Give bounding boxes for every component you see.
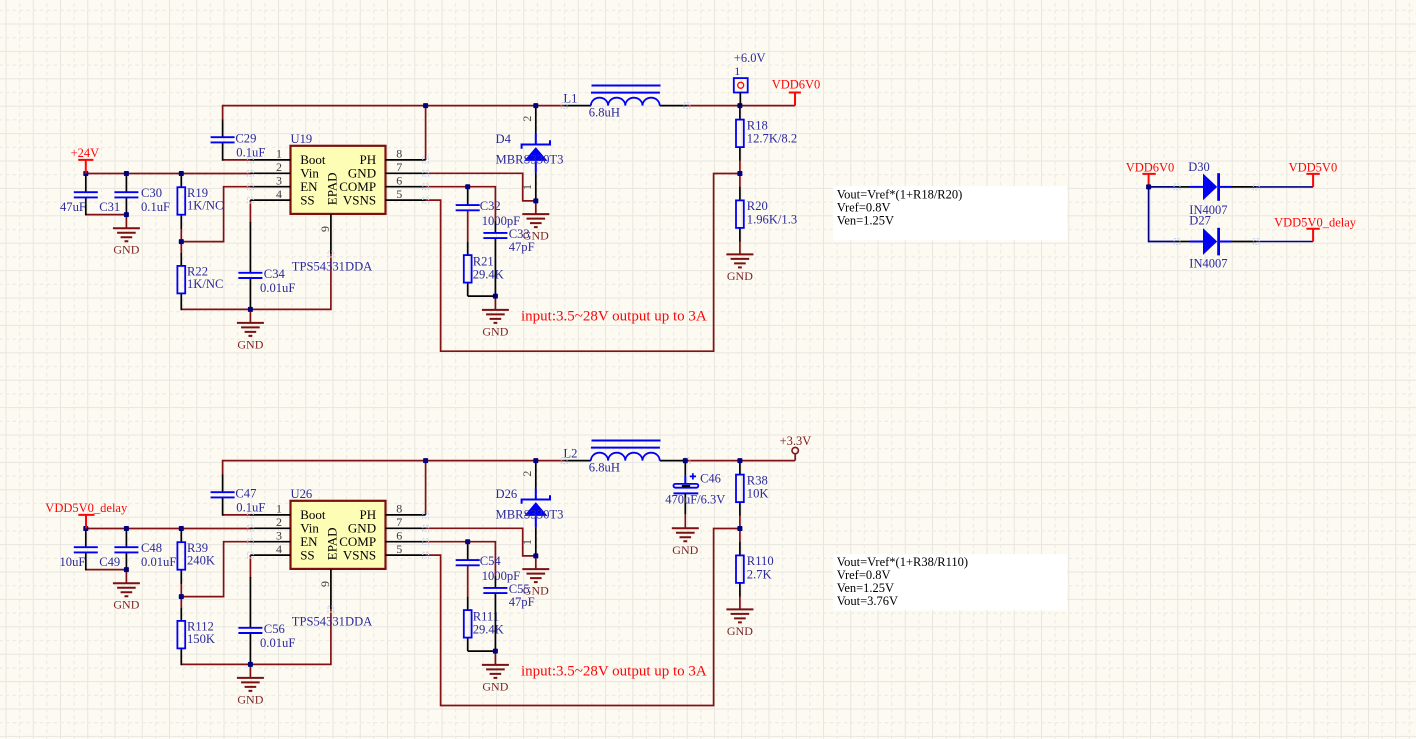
pin 1 Boot [250,159,290,161]
svg-text:GND: GND [482,679,508,693]
capacitor C31 plates [74,192,98,197]
pin 7 GND [386,172,426,174]
svg-text:GND: GND [237,692,263,706]
svg-text:Vref=0.8V: Vref=0.8V [837,200,891,214]
wire: EN divider riser [181,187,251,242]
svg-text:47pF: 47pF [509,595,535,609]
svg-text:Vref=0.8V: Vref=0.8V [837,568,891,582]
wire: D27 cathode to VDD5V0_delay [1256,241,1313,243]
svg-text:10uF: 10uF [60,555,86,569]
svg-text:0.1uF: 0.1uF [236,146,265,160]
resistor R21 body [464,255,472,283]
wire: C31 bottom link [86,214,127,216]
svg-text:L1: L1 [563,92,577,106]
svg-text:U19: U19 [291,132,313,146]
wire: comp cap lower lead [467,210,469,242]
svg-text:0.01uF: 0.01uF [260,636,295,650]
pin 5 VSNS [386,554,426,556]
svg-text:1: 1 [520,184,534,190]
pin 3 EN [250,541,290,543]
svg-text:470uF/6.3V: 470uF/6.3V [665,493,725,507]
wire: gnd stem [535,201,537,214]
svg-text:R110: R110 [747,554,774,568]
pin 8 PH [386,514,426,516]
junction dots [423,458,428,463]
svg-text:+24V: +24V [71,146,100,160]
capacitor C54 1000pF leads [467,542,469,560]
svg-text:+3.3V: +3.3V [780,434,812,448]
capacitor C31 47uF leads [85,174,87,193]
connection marks at diode pins [1174,184,1180,190]
svg-text:2: 2 [520,471,534,477]
capacitor C32 plates [456,205,480,210]
svg-text:Vout=Vref*(1+R38/R110): Vout=Vref*(1+R38/R110) [837,555,968,569]
svg-text:VDD5V0_delay: VDD5V0_delay [1274,216,1357,230]
wire: comp cap lower lead [467,565,469,597]
capacitor C55 plates [483,588,507,593]
wire: boot cap to pin 1 [223,514,252,516]
svg-text:0.01uF: 0.01uF [260,281,295,295]
svg-text:3: 3 [276,174,282,188]
svg-text:Vout=Vref*(1+R18/R20): Vout=Vref*(1+R18/R20) [837,188,963,202]
svg-text:R18: R18 [747,118,768,132]
resistor R110 2.7K leads [739,542,741,556]
capacitor C55 47pF leads [494,576,496,588]
capacitor C30 0.1uF leads [125,174,127,193]
svg-text:C48: C48 [141,541,162,555]
ground under R111 [482,665,509,678]
svg-text:EPAD: EPAD [324,527,339,560]
resistor R20 body [736,200,744,228]
svg-text:4: 4 [276,187,282,201]
svg-text:VDD5V0_delay: VDD5V0_delay [45,501,128,515]
pin 1 Boot [250,514,290,516]
svg-text:29.4K: 29.4K [473,622,504,636]
capacitor C47 0.1uF leads [222,475,224,493]
svg-text:D26: D26 [496,487,518,501]
svg-text:U26: U26 [291,487,313,501]
ground under R110 [726,609,753,622]
svg-text:GND: GND [672,543,698,557]
wire: SS pin to soft-start cap [249,555,251,578]
svg-text:1: 1 [276,502,282,516]
svg-text:D30: D30 [1188,160,1210,174]
wire: IC GND pin to diode anode [426,528,536,556]
diode D27 IN4007 [1177,228,1256,256]
svg-text:5: 5 [396,542,402,556]
wire: top rail from C29 to L pin [223,105,565,107]
capacitor C56 plates [238,628,262,633]
pin 4 SS [250,199,290,201]
svg-text:8: 8 [396,147,402,161]
wire: EPAD to bottom net [330,254,332,310]
svg-text:Ven=1.25V: Ven=1.25V [837,213,894,227]
wire: feedback loop VSNS [426,529,740,706]
wire: C49 bottom link [86,569,127,571]
svg-text:GND: GND [727,624,753,638]
resistor R18 12.7K/8.2 leads [739,106,741,120]
inductor L1 6.8uH [561,86,690,120]
wire: D30 cathode to VDD5V0 [1256,186,1313,188]
wire: feedback loop VSNS [426,174,740,352]
svg-text:C49: C49 [99,555,120,569]
wire: top rail right of inductor [687,105,795,107]
svg-text:D4: D4 [496,132,512,146]
svg-text:D27: D27 [1189,213,1211,227]
svg-text:input:3.5~28V output up to 3A: input:3.5~28V output up to 3A [521,664,707,680]
svg-text:C46: C46 [700,471,721,485]
IC U26 TPS54331DDA [248,501,429,612]
capacitor C56 0.01uF leads [249,577,251,628]
svg-text:1K/NC: 1K/NC [187,277,223,291]
svg-text:1: 1 [734,64,740,78]
svg-text:VDD5V0: VDD5V0 [1289,161,1338,175]
svg-text:R21: R21 [473,254,494,268]
ground under R21 [482,310,509,323]
resistor R19 1K/NC leads [180,174,182,188]
wire: Vin rail [86,528,251,530]
svg-text:VDD6V0: VDD6V0 [1126,161,1175,175]
capacitor C47 plates [211,492,235,497]
wire: SS pin to soft-start cap [249,200,251,223]
wire: EPAD to bottom net [330,609,332,665]
diode D4 MBRS330T3 (schottky, vertical) [520,106,550,201]
resistor R111 body [464,610,472,638]
IC U19 TPS54331DDA [248,146,429,257]
svg-text:9: 9 [318,581,332,587]
junction dots [423,103,428,108]
svg-text:VSNS: VSNS [343,547,376,562]
svg-text:47pF: 47pF [509,240,535,254]
resistor R38 body [736,475,744,503]
ground under C34 [237,323,264,336]
wire: gnd stem [494,296,496,310]
wire: gnd stem [249,309,251,323]
svg-text:1: 1 [276,147,282,161]
resistor R39 240K leads [180,529,182,543]
pin 4 SS [250,554,290,556]
resistor R111 29.4K leads [467,597,469,610]
svg-text:2.7K: 2.7K [747,567,772,581]
svg-text:29.4K: 29.4K [473,267,504,281]
svg-text:6.8uH: 6.8uH [589,105,620,119]
wire: COMP net [426,542,496,576]
svg-text:C34: C34 [264,267,286,281]
resistor R112 body [177,621,185,649]
annotation box: output formula (top) [833,186,1067,240]
svg-text:6.8uH: 6.8uH [589,460,620,474]
inductor L2 6.8uH [561,441,690,475]
capacitor C30 plates [114,192,138,197]
svg-text:GND: GND [482,324,508,338]
svg-text:2: 2 [276,160,282,174]
svg-text:1K/NC: 1K/NC [187,198,223,212]
power port +3.3V (circle style) [780,434,812,461]
pin 3 EN [250,186,290,188]
pin 9 EPAD [330,569,332,609]
svg-text:3: 3 [276,529,282,543]
resistor R19 body [177,187,185,215]
svg-text:Ven=1.25V: Ven=1.25V [837,581,894,595]
pin connection marks [248,157,254,163]
wire: boot cap riser [222,460,224,475]
resistor R112 150K leads [180,597,182,608]
ground under C46 [672,528,699,541]
svg-text:2: 2 [276,515,282,529]
svg-text:C32: C32 [480,199,501,213]
resistor R20 1.96K/1.3 leads [739,187,741,201]
power port VDD6V0 (top rail) [772,77,821,105]
resistor R18 body [736,120,744,148]
capacitor C48 0.01uF leads [125,529,127,548]
wire: VDD6V0 node to both diodes [1149,187,1177,242]
wire: gnd stem [535,556,537,569]
diode D26 MBRS330T3 (schottky, vertical) [520,461,550,556]
svg-text:C56: C56 [264,622,285,636]
pin 2 Vin [250,172,290,174]
svg-text:SS: SS [300,547,314,562]
svg-text:TPS54331DDA: TPS54331DDA [292,259,372,273]
wire: SS net bottom [181,308,331,310]
pin 6 COMP [386,186,426,188]
svg-text:6: 6 [396,529,402,543]
power port VDD5V0_delay (input of lower circuit) [45,501,128,529]
svg-text:+6.0V: +6.0V [734,51,766,65]
capacitor C34 plates [238,273,262,278]
svg-text:VDD6V0: VDD6V0 [772,77,821,91]
wire: PH pin riser [425,461,427,515]
svg-text:Vout=3.76V: Vout=3.76V [837,594,898,608]
wire: divider mid [739,515,741,542]
svg-text:1000pF: 1000pF [482,569,521,583]
capacitor C49 10uF leads [85,529,87,548]
svg-text:C29: C29 [235,131,256,145]
resistor R110 body [736,555,744,583]
pin 2 Vin [250,527,290,529]
svg-text:L2: L2 [563,447,577,461]
svg-text:GND: GND [113,243,139,257]
svg-text:TPS54331DDA: TPS54331DDA [292,614,372,628]
capacitor C34 0.01uF leads [249,222,251,273]
capacitor C32 1000pF leads [467,187,469,205]
svg-text:1.96K/1.3: 1.96K/1.3 [747,212,797,226]
svg-text:GND: GND [113,598,139,612]
svg-text:C55: C55 [509,582,530,596]
svg-text:7: 7 [396,160,402,174]
svg-text:C31: C31 [99,200,120,214]
svg-text:12.7K/8.2: 12.7K/8.2 [747,132,797,146]
pin 7 GND [386,527,426,529]
svg-text:0.01uF: 0.01uF [141,555,176,569]
wire: SS net bottom [181,663,331,665]
wire: boot cap to pin 1 [223,159,252,161]
svg-text:1: 1 [520,539,534,545]
svg-text:MBRS330T3: MBRS330T3 [496,507,564,521]
diode D30 IN4007 [1177,173,1256,201]
capacitor C29 plates [211,137,235,142]
capacitor C33 47pF leads [494,221,496,233]
svg-text:7: 7 [396,515,402,529]
node VDD6V0 junction [1146,184,1151,189]
wire: gnd stem [249,664,251,678]
svg-text:VSNS: VSNS [343,192,376,207]
svg-text:C30: C30 [141,186,162,200]
svg-text:4: 4 [276,542,282,556]
svg-text:10K: 10K [747,487,769,501]
pin 9 EPAD [330,214,332,254]
svg-text:0.1uF: 0.1uF [141,200,170,214]
wire: R110 to ground [739,596,741,609]
power port VDD6V0 (diode block) [1126,161,1175,187]
pin 8 PH [386,159,426,161]
wire: boot cap riser [222,105,224,120]
pin connection marks [248,512,254,518]
wire: R20 to ground [739,241,741,254]
svg-text:C47: C47 [235,486,256,500]
ground at D4 anode [522,214,549,227]
pin 6 COMP [386,541,426,543]
wire: divider mid [739,160,741,187]
capacitor C29 0.1uF leads [222,120,224,138]
svg-text:R38: R38 [747,473,768,487]
resistor R22 body [177,266,185,294]
svg-text:EPAD: EPAD [324,172,339,205]
ground under C30 [113,228,140,241]
wire: IC GND pin to diode anode [426,173,536,201]
svg-text:GND: GND [237,337,263,351]
resistor R22 1K/NC leads [180,242,182,253]
wire: top rail right of inductor [687,460,795,462]
svg-text:C54: C54 [480,554,502,568]
wire: top rail from C47 to L pin [223,460,565,462]
svg-text:C33: C33 [509,227,530,241]
wire: gnd stem [125,215,127,229]
resistor R21 29.4K leads [467,242,469,255]
capacitor C54 plates [456,560,480,565]
svg-text:GND: GND [727,269,753,283]
wire: COMP net [426,187,496,221]
svg-text:input:3.5~28V output up to 3A: input:3.5~28V output up to 3A [521,309,707,325]
wire: gnd stem [494,651,496,665]
capacitor C33 plates [483,233,507,238]
capacitor C48 plates [114,547,138,552]
power port +24V [78,160,93,174]
svg-text:SS: SS [300,192,314,207]
svg-text:150K: 150K [187,632,215,646]
ground under C48 [113,583,140,596]
svg-text:R20: R20 [747,199,768,213]
svg-text:2: 2 [520,116,534,122]
wire: gnd stem [125,570,127,584]
wire: PH pin riser [425,106,427,160]
svg-text:9: 9 [318,226,332,232]
svg-text:8: 8 [396,502,402,516]
svg-text:5: 5 [396,187,402,201]
ground at D26 anode [522,569,549,582]
pin 5 VSNS [386,199,426,201]
svg-text:MBRS330T3: MBRS330T3 [496,152,564,166]
annotation box: output formula (bottom) [833,554,1067,610]
wire: EN divider riser [181,542,251,597]
svg-text:47uF: 47uF [60,200,86,214]
svg-text:IN4007: IN4007 [1189,257,1227,271]
svg-text:6: 6 [396,174,402,188]
power port VDD5V0 [1289,161,1338,187]
ground under C56 [237,678,264,691]
wire: Vin rail [86,173,251,175]
resistor R39 body [177,542,185,570]
ground under R20 [726,254,753,267]
svg-text:1000pF: 1000pF [482,214,521,228]
power port VDD5V0_delay (diode block) [1274,216,1357,242]
capacitor C49 plates [74,547,98,552]
connector P? pin 1 (+6.0V) [734,51,766,106]
capacitor C46 470uF/6.3V (polarized output cap) [674,461,699,529]
resistor R38 10K leads [739,461,741,475]
svg-text:0.1uF: 0.1uF [236,501,265,515]
svg-text:240K: 240K [187,553,215,567]
